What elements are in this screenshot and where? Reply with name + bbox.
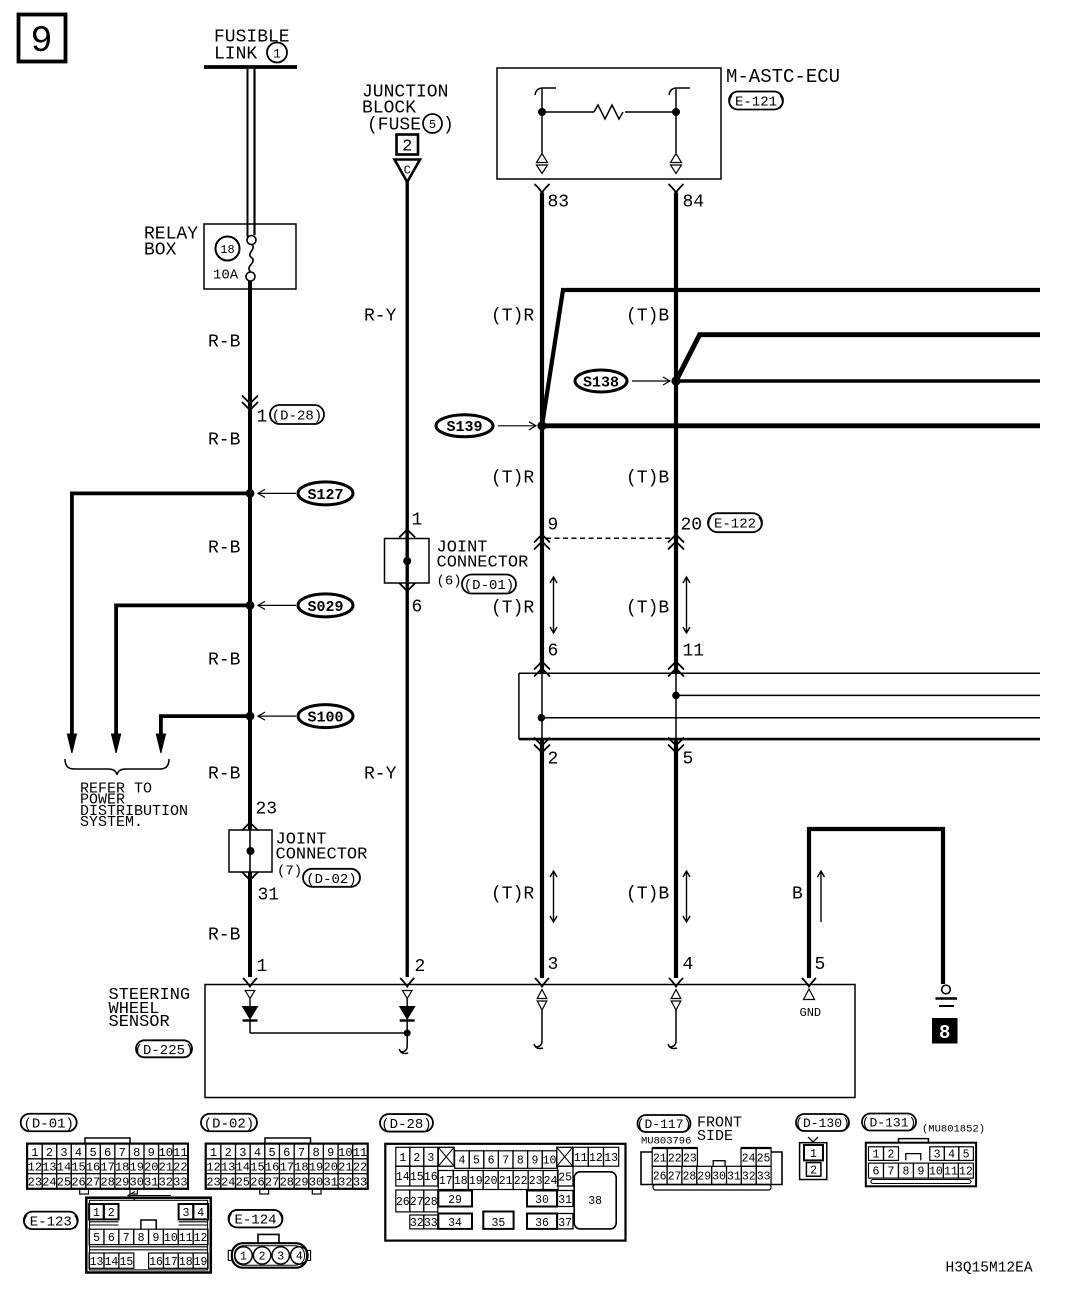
svg-text:32: 32 [410,1217,424,1230]
svg-text:4: 4 [948,1149,955,1162]
svg-text:5: 5 [89,1146,96,1160]
svg-text:7: 7 [298,1146,305,1160]
svg-text:15: 15 [119,1256,133,1269]
svg-text:20: 20 [681,515,703,535]
svg-text:(6): (6) [437,574,462,590]
svg-text:12: 12 [28,1161,42,1175]
svg-text:21: 21 [499,1175,513,1188]
svg-text:36: 36 [535,1217,549,1230]
svg-text:SENSOR: SENSOR [109,1013,170,1032]
svg-text:18: 18 [115,1161,129,1175]
svg-text:11: 11 [944,1166,958,1179]
svg-text:CONNECTOR: CONNECTOR [437,554,529,573]
svg-text:1: 1 [93,1207,100,1220]
svg-text:10: 10 [164,1232,178,1245]
svg-text:16: 16 [424,1171,438,1184]
svg-text:21: 21 [653,1152,667,1165]
svg-text:25: 25 [236,1175,250,1189]
svg-text:25: 25 [57,1175,71,1189]
svg-text:S029: S029 [307,599,343,616]
svg-text:12: 12 [206,1161,220,1175]
svg-text:(E-122): (E-122) [706,517,765,533]
svg-text:C: C [404,164,411,178]
svg-text:LINK: LINK [214,45,257,65]
svg-text:28: 28 [682,1171,696,1184]
svg-text:B: B [792,884,803,904]
svg-text:1: 1 [257,408,268,428]
svg-text:(D-130): (D-130) [795,1116,850,1131]
svg-text:34: 34 [448,1217,462,1230]
svg-text:(MU801852): (MU801852) [922,1123,985,1135]
svg-text:24: 24 [544,1175,558,1188]
svg-text:31: 31 [258,885,280,905]
svg-text:9: 9 [548,515,559,535]
svg-text:19: 19 [469,1175,483,1188]
svg-text:R-B: R-B [208,430,241,450]
svg-text:35: 35 [491,1217,505,1230]
svg-text:R-B: R-B [208,538,241,558]
svg-text:20: 20 [144,1161,158,1175]
svg-text:30: 30 [309,1175,323,1189]
svg-text:3: 3 [548,955,559,975]
svg-text:8: 8 [133,1146,140,1160]
svg-text:MU803796: MU803796 [641,1136,691,1148]
svg-text:M-ASTC-ECU: M-ASTC-ECU [726,66,840,88]
svg-text:16: 16 [86,1161,100,1175]
svg-text:19: 19 [194,1256,208,1269]
svg-text:12: 12 [194,1232,208,1245]
svg-text:32: 32 [338,1175,352,1189]
svg-text:9: 9 [531,1155,538,1168]
svg-text:4: 4 [683,955,694,975]
svg-text:17: 17 [280,1161,294,1175]
svg-text:21: 21 [338,1161,352,1175]
svg-text:R-B: R-B [208,764,241,784]
svg-text:(D-117): (D-117) [637,1117,692,1132]
svg-text:(D-01): (D-01) [23,1117,73,1133]
svg-text:27: 27 [668,1171,682,1184]
svg-text:15: 15 [250,1161,264,1175]
svg-text:23: 23 [206,1175,220,1189]
svg-text:29: 29 [448,1194,462,1207]
svg-text:5: 5 [93,1232,100,1245]
svg-text:(D-225): (D-225) [135,1043,194,1059]
svg-text:17: 17 [100,1161,114,1175]
svg-text:22: 22 [173,1161,187,1175]
svg-text:2: 2 [810,1165,817,1178]
svg-text:38: 38 [588,1195,602,1208]
svg-text:11: 11 [574,1152,588,1165]
svg-text:): ) [443,116,454,136]
svg-text:(T)B: (T)B [626,468,669,488]
svg-text:83: 83 [548,192,570,212]
svg-text:29: 29 [697,1171,711,1184]
svg-text:5: 5 [473,1155,480,1168]
svg-text:14: 14 [105,1256,119,1269]
svg-text:S127: S127 [307,487,343,504]
svg-text:R-B: R-B [208,925,241,945]
svg-text:5: 5 [963,1149,970,1162]
svg-text:15: 15 [410,1171,424,1184]
svg-text:2: 2 [108,1207,115,1220]
svg-text:20: 20 [324,1161,338,1175]
svg-text:17: 17 [164,1256,178,1269]
svg-text:2: 2 [225,1146,232,1160]
svg-text:22: 22 [353,1161,367,1175]
svg-text:28: 28 [280,1175,294,1189]
svg-text:27: 27 [410,1196,424,1209]
svg-text:2: 2 [259,1250,266,1263]
svg-text:1: 1 [31,1146,38,1160]
svg-text:9: 9 [153,1232,160,1245]
svg-text:23: 23 [683,1152,697,1165]
svg-text:17: 17 [439,1175,453,1188]
svg-text:8: 8 [517,1155,524,1168]
svg-text:8: 8 [138,1232,145,1245]
svg-text:4: 4 [254,1146,261,1160]
svg-text:31: 31 [727,1171,741,1184]
svg-text:(E-121): (E-121) [727,95,786,111]
svg-text:11: 11 [179,1232,193,1245]
svg-text:1: 1 [210,1146,217,1160]
svg-text:27: 27 [265,1175,279,1189]
svg-text:1: 1 [273,47,281,62]
svg-text:9: 9 [327,1146,334,1160]
svg-text:24: 24 [42,1175,56,1189]
svg-text:R-B: R-B [208,332,241,352]
svg-text:2: 2 [415,957,426,977]
svg-text:14: 14 [396,1171,410,1184]
svg-text:19: 19 [309,1161,323,1175]
svg-text:28: 28 [424,1196,438,1209]
svg-text:1: 1 [810,1148,817,1161]
svg-text:26: 26 [71,1175,85,1189]
svg-text:2: 2 [46,1146,53,1160]
svg-text:12: 12 [959,1166,973,1179]
svg-text:(T)R: (T)R [491,468,534,488]
svg-text:R-B: R-B [208,650,241,670]
svg-text:25: 25 [558,1172,572,1185]
svg-text:30: 30 [712,1171,726,1184]
svg-text:10: 10 [929,1166,943,1179]
svg-text:33: 33 [757,1171,771,1184]
svg-text:2: 2 [402,138,412,157]
svg-text:32: 32 [742,1171,756,1184]
svg-text:8: 8 [939,1022,950,1044]
svg-text:6: 6 [108,1232,115,1245]
svg-text:9: 9 [917,1166,924,1179]
svg-text:6: 6 [104,1146,111,1160]
svg-text:7: 7 [502,1155,509,1168]
svg-text:26: 26 [250,1175,264,1189]
svg-text:SYSTEM.: SYSTEM. [80,814,143,831]
svg-text:1: 1 [412,510,423,530]
svg-text:14: 14 [57,1161,71,1175]
svg-text:3: 3 [60,1146,67,1160]
svg-text:(D-01): (D-01) [464,578,514,594]
svg-text:H3Q15M12EA: H3Q15M12EA [946,1261,1033,1277]
svg-text:10: 10 [159,1146,173,1160]
svg-text:7: 7 [888,1166,895,1179]
svg-text:26: 26 [653,1171,667,1184]
svg-text:10: 10 [338,1146,352,1160]
svg-text:10: 10 [543,1155,557,1168]
svg-text:13: 13 [221,1161,235,1175]
svg-text:23: 23 [256,799,278,819]
svg-text:S100: S100 [307,710,343,727]
svg-text:3: 3 [239,1146,246,1160]
svg-text:(D-131): (D-131) [862,1116,917,1131]
svg-text:4: 4 [75,1146,82,1160]
svg-text:6: 6 [488,1155,495,1168]
svg-text:11: 11 [173,1146,187,1160]
svg-text:30: 30 [130,1175,144,1189]
svg-text:6: 6 [873,1166,880,1179]
svg-text:31: 31 [324,1175,338,1189]
svg-text:(T)B: (T)B [626,884,669,904]
svg-text:18: 18 [220,243,234,257]
svg-text:4: 4 [296,1250,303,1263]
svg-text:BOX: BOX [144,240,177,260]
svg-text:6: 6 [283,1146,290,1160]
svg-text:3: 3 [182,1207,189,1220]
svg-text:1: 1 [399,1152,406,1165]
svg-text:18: 18 [294,1161,308,1175]
svg-text:9: 9 [30,21,52,63]
svg-text:22: 22 [668,1152,682,1165]
svg-text:13: 13 [604,1152,618,1165]
svg-text:3: 3 [934,1149,941,1162]
svg-text:(E-123): (E-123) [21,1214,80,1230]
svg-text:20: 20 [484,1175,498,1188]
svg-text:(T)R: (T)R [491,598,534,618]
svg-text:(T)R: (T)R [491,884,534,904]
svg-text:24: 24 [221,1175,235,1189]
svg-text:2: 2 [888,1149,895,1162]
svg-text:2: 2 [548,749,559,769]
svg-text:31: 31 [558,1194,572,1207]
svg-text:31: 31 [144,1175,158,1189]
svg-text:1: 1 [240,1250,247,1263]
svg-text:3: 3 [427,1152,434,1165]
svg-text:12: 12 [589,1152,603,1165]
svg-text:23: 23 [529,1175,543,1188]
svg-text:5: 5 [815,955,826,975]
svg-text:28: 28 [100,1175,114,1189]
svg-text:8: 8 [312,1146,319,1160]
svg-text:13: 13 [90,1256,104,1269]
svg-text:18: 18 [454,1175,468,1188]
svg-text:9: 9 [148,1146,155,1160]
svg-text:(T)B: (T)B [626,306,669,326]
svg-text:(T)R: (T)R [491,306,534,326]
svg-text:33: 33 [424,1217,438,1230]
svg-text:18: 18 [179,1256,193,1269]
svg-text:7: 7 [119,1146,126,1160]
svg-text:26: 26 [396,1196,410,1209]
svg-text:14: 14 [236,1161,250,1175]
svg-text:5: 5 [269,1146,276,1160]
svg-text:SIDE: SIDE [697,1128,733,1145]
svg-text:(D-02): (D-02) [306,872,356,888]
svg-text:(7): (7) [277,864,302,880]
svg-text:37: 37 [558,1217,572,1230]
svg-text:2: 2 [413,1152,420,1165]
svg-text:30: 30 [535,1194,549,1207]
svg-text:GND: GND [800,1006,822,1020]
svg-text:(D-28): (D-28) [381,1117,431,1133]
svg-text:33: 33 [173,1175,187,1189]
svg-text:CONNECTOR: CONNECTOR [276,846,368,865]
svg-text:(T)B: (T)B [626,598,669,618]
svg-text:23: 23 [28,1175,42,1189]
svg-text:32: 32 [159,1175,173,1189]
svg-text:S138: S138 [583,374,619,391]
svg-text:5: 5 [683,749,694,769]
svg-text:16: 16 [149,1256,163,1269]
svg-text:(E-124): (E-124) [226,1213,285,1229]
svg-text:27: 27 [86,1175,100,1189]
svg-text:8: 8 [902,1166,909,1179]
svg-text:5: 5 [429,118,436,132]
svg-text:(D-02): (D-02) [204,1117,254,1133]
svg-text:24: 24 [742,1152,756,1165]
svg-text:R-Y: R-Y [364,764,397,784]
svg-text:(FUSE: (FUSE [367,116,421,136]
svg-text:33: 33 [353,1175,367,1189]
svg-text:6: 6 [412,597,423,617]
svg-text:16: 16 [265,1161,279,1175]
svg-text:R-Y: R-Y [364,306,397,326]
svg-text:15: 15 [71,1161,85,1175]
svg-text:7: 7 [123,1232,130,1245]
svg-text:84: 84 [683,192,705,212]
svg-text:4: 4 [458,1155,465,1168]
svg-text:11: 11 [683,642,705,662]
svg-text:19: 19 [130,1161,144,1175]
svg-text:21: 21 [159,1161,173,1175]
svg-text:S139: S139 [446,419,482,436]
svg-text:6: 6 [548,642,559,662]
svg-text:(D-28): (D-28) [272,409,322,425]
svg-text:13: 13 [42,1161,56,1175]
svg-text:3: 3 [277,1250,284,1263]
svg-text:10A: 10A [213,268,239,284]
svg-text:22: 22 [514,1175,528,1188]
svg-text:1: 1 [873,1149,880,1162]
svg-text:25: 25 [757,1152,771,1165]
svg-text:11: 11 [353,1146,367,1160]
svg-text:1: 1 [257,957,268,977]
svg-text:4: 4 [197,1207,204,1220]
svg-text:29: 29 [115,1175,129,1189]
svg-text:29: 29 [294,1175,308,1189]
